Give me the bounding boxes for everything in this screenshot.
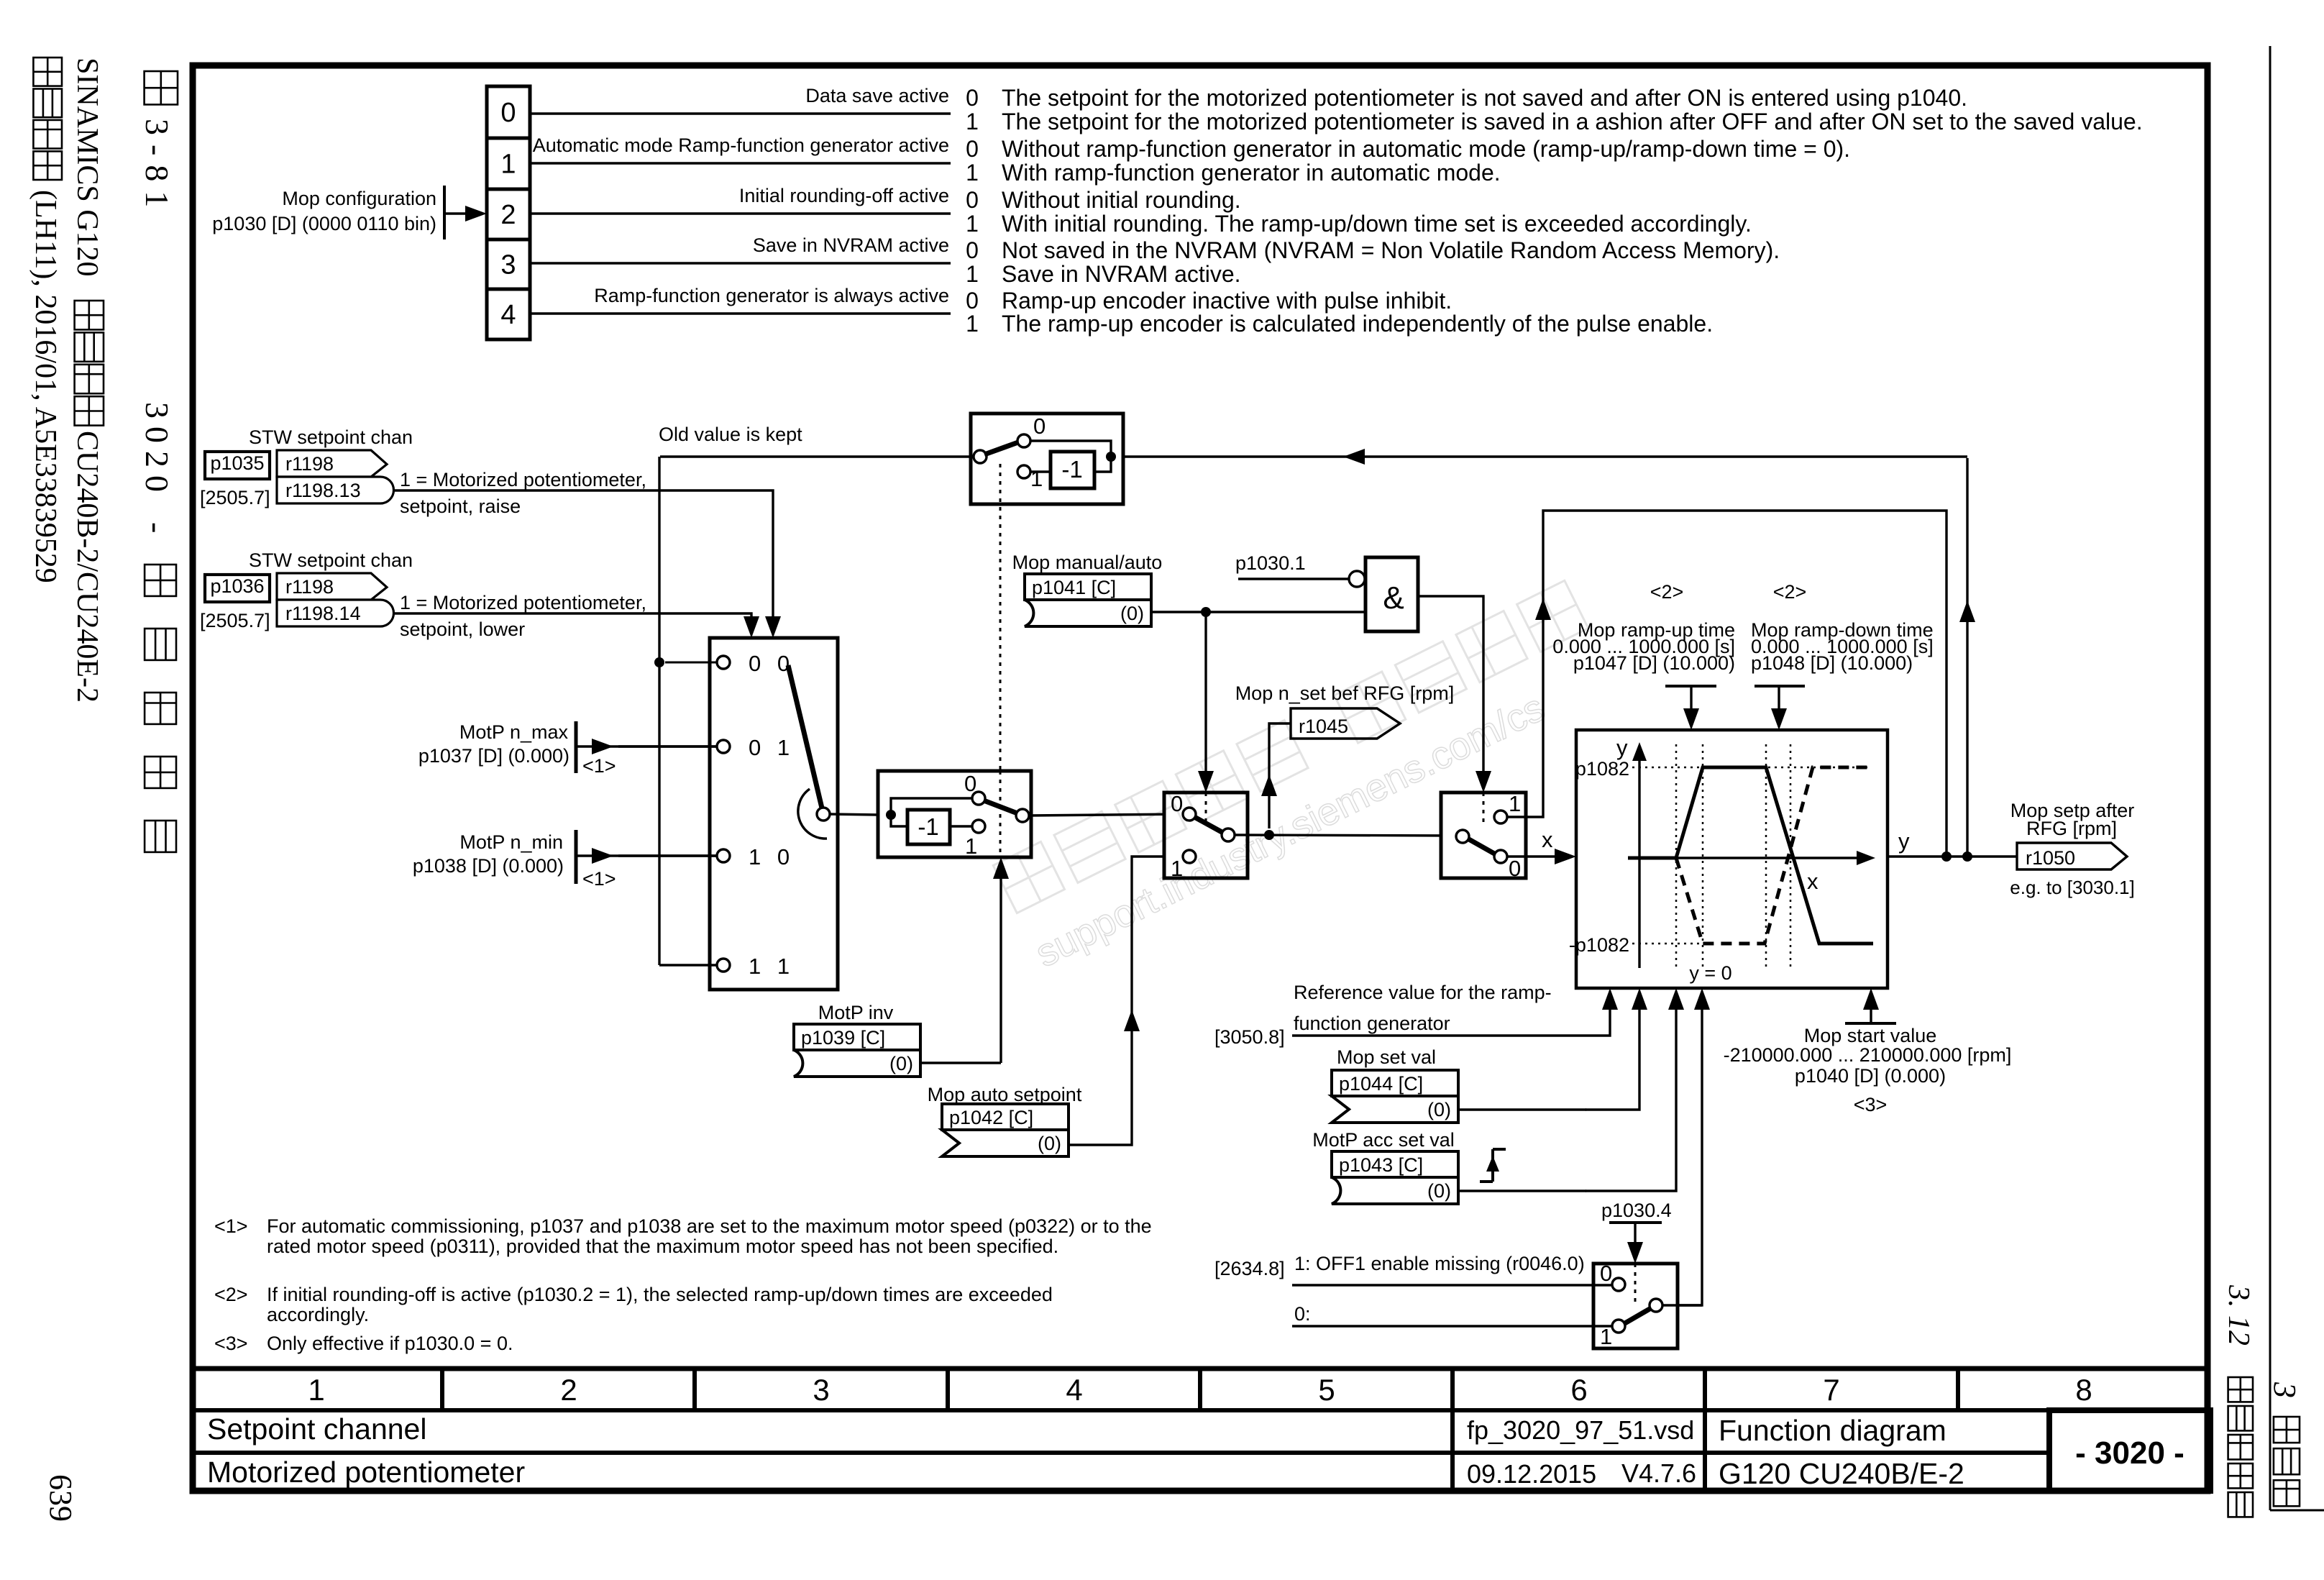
svg-text:r1198.13: r1198.13: [285, 480, 361, 501]
S1 wire -1 out: [1094, 458, 1111, 472]
svg-text:<2>: <2>: [214, 1284, 248, 1305]
wire lower r1198.14 to switch: [394, 613, 751, 618]
switch S2 box (raise/lower select): [710, 638, 838, 990]
svg-text:1: 1: [966, 311, 979, 337]
svg-text:p1041 [C]: p1041 [C]: [1032, 577, 1116, 598]
wire p1047 into RFG: [1690, 686, 1692, 713]
svg-text:3. 12: 3. 12: [2222, 1284, 2255, 1346]
gate AND box U1: [1365, 557, 1418, 631]
svg-text:<1>: <1>: [582, 755, 616, 777]
svg-text:Without initial rounding.: Without initial rounding.: [1002, 187, 1241, 213]
svg-text:p1036: p1036: [210, 575, 264, 597]
svg-text:Mop manual/auto: Mop manual/auto: [1012, 552, 1163, 573]
S5 contact 0: [1494, 850, 1507, 863]
svg-text:0: 0: [1600, 1261, 1612, 1286]
svg-text:<2>: <2>: [1650, 581, 1684, 603]
svg-text:Automatic mode Ramp-function g: Automatic mode Ramp-function generator a…: [533, 134, 949, 156]
svg-text:(0): (0): [1038, 1133, 1061, 1154]
svg-text:MotP inv: MotP inv: [818, 1002, 894, 1023]
svg-text:1 0: 1 0: [749, 844, 795, 869]
svg-text:(LH11), 2016/01, A5E33839529: (LH11), 2016/01, A5E33839529: [29, 190, 62, 583]
S1 junction: [1106, 452, 1116, 462]
p1048 bar: [1755, 685, 1805, 688]
S5 control dashed: [1483, 793, 1485, 827]
svg-text:With initial rounding. The ram: With initial rounding. The ramp-up/down …: [1002, 211, 1752, 237]
table line under numbers: [190, 1408, 2210, 1412]
wire raise r1198.13 to switch: [394, 490, 773, 618]
S2 contact 11: [717, 959, 730, 972]
table column divider 3: [946, 1369, 950, 1410]
svg-text:<1>: <1>: [214, 1215, 248, 1237]
svg-text:0: 0: [966, 288, 979, 314]
RFG p1082 dotted: [1632, 767, 1871, 769]
frame main diagram border: [193, 65, 2208, 1491]
S1 inverter -1 box: [1051, 452, 1094, 488]
svg-text:09.12.2015: 09.12.2015: [1467, 1459, 1596, 1489]
svg-text:0: 0: [966, 85, 979, 111]
S5 lever: [1468, 839, 1496, 854]
RFG x axis: [1628, 857, 1859, 859]
svg-text:3020: 3020: [139, 402, 175, 500]
svg-text:1: 1: [1030, 466, 1043, 491]
wire p1043 into RFG: [1586, 1005, 1676, 1191]
svg-text:setpoint, lower: setpoint, lower: [400, 618, 525, 640]
svg-text:[2505.7]: [2505.7]: [200, 487, 270, 508]
svg-text:<2>: <2>: [1773, 581, 1807, 603]
right margin rule: [2269, 46, 2272, 1510]
S2 contact 10: [717, 849, 730, 862]
S4 contact 0: [1183, 808, 1196, 821]
svg-text:V4.7.6: V4.7.6: [1621, 1458, 1696, 1488]
RFG -p1082 dotted: [1632, 943, 1703, 945]
svg-text:4: 4: [500, 300, 516, 330]
margin text manual LH11 2016: [29, 58, 62, 583]
switch S4 box (manual/auto): [1164, 793, 1248, 878]
svg-text:STW setpoint chan: STW setpoint chan: [249, 426, 413, 448]
svg-text:The setpoint for the motorized: The setpoint for the motorized potentiom…: [1002, 85, 1967, 111]
svg-text:<1>: <1>: [582, 868, 616, 890]
svg-text:x: x: [1542, 827, 1553, 852]
svg-text:The ramp-up encoder is calcula: The ramp-up encoder is calculated indepe…: [1002, 311, 1713, 337]
svg-text:r1198: r1198: [285, 453, 334, 475]
table divider col7 rows: [1703, 1410, 1707, 1491]
svg-text:Not saved in the NVRAM (NVRAM: Not saved in the NVRAM (NVRAM = Non Vola…: [1002, 237, 1780, 263]
S4 control arrow: [1204, 612, 1207, 775]
switch S6 box (OFF1): [1593, 1264, 1678, 1348]
svg-text:accordingly.: accordingly.: [267, 1304, 369, 1325]
svg-text:3-81: 3-81: [139, 119, 175, 216]
p1041 junction: [1201, 607, 1211, 617]
svg-text:7: 7: [1823, 1373, 1839, 1407]
wire r1045: [1269, 723, 1291, 828]
S1 wire 1 to -1: [1030, 470, 1051, 472]
svg-text:1: 1: [966, 160, 979, 186]
S3 control dashed: [999, 771, 1002, 856]
svg-text:1 1: 1 1: [749, 954, 795, 979]
svg-text:rated motor speed (p0311), pro: rated motor speed (p0311), provided that…: [267, 1236, 1058, 1257]
svg-text:&: &: [1383, 580, 1404, 616]
S6 output wire: [1662, 1304, 1702, 1306]
S4 output wire: [1234, 835, 1456, 836]
table box -3020- border: [2049, 1410, 2210, 1491]
margin page number 639: [43, 1474, 78, 1522]
connector p1041: [1025, 574, 1151, 600]
switch S3 box (MotP inv): [878, 771, 1031, 857]
svg-text:0: 0: [1509, 856, 1521, 881]
svg-text:1: 1: [308, 1373, 324, 1407]
wire OFF1 line: [1292, 1284, 1612, 1286]
S4 lever: [1194, 817, 1223, 833]
watermark siemens forum: [993, 580, 1619, 975]
svg-text:-210000.000 ... 210000.000 [r: -210000.000 ... 210000.000 [rpm]: [1724, 1044, 2012, 1066]
svg-text:0: 0: [966, 187, 979, 213]
svg-text:Motorized potentiometer: Motorized potentiometer: [207, 1456, 525, 1489]
S4 contact 1: [1183, 850, 1196, 863]
wire p1030.4 control: [1634, 1223, 1636, 1247]
S5 wire 1 feedback: [1507, 511, 1946, 857]
S2 contact 00: [717, 656, 730, 669]
wire p1040 into RFG: [1870, 1005, 1872, 1023]
svg-text:1: 1: [966, 261, 979, 287]
table column divider 4: [1198, 1369, 1202, 1410]
svg-text:r1045: r1045: [1299, 716, 1348, 737]
wire bit0: [530, 112, 951, 114]
gate output wire: [1418, 596, 1483, 775]
svg-text:fp_3020_97_51.vsd: fp_3020_97_51.vsd: [1467, 1415, 1694, 1445]
svg-text:SINAMICS G120: SINAMICS G120: [70, 58, 104, 277]
p1038 input bar: [575, 830, 578, 884]
junction r1050 b: [1962, 851, 1972, 862]
gate NOT circle: [1349, 571, 1365, 587]
svg-text:p1030 [D] (0000 0110 bin): p1030 [D] (0000 0110 bin): [212, 213, 436, 234]
S1 control dashed: [999, 464, 1002, 771]
S3 junction: [886, 810, 896, 820]
svg-text:Old value is kept: Old value is kept: [659, 424, 802, 445]
svg-text:0: 0: [966, 237, 979, 263]
svg-text:Mop start value: Mop start value: [1804, 1025, 1937, 1046]
svg-text:0: 0: [966, 136, 979, 162]
S2 contact 01: [717, 740, 730, 753]
table column divider 6: [1703, 1369, 1707, 1410]
wire feedback r1050 to old-value: [1966, 458, 1968, 857]
p1037 input bar: [575, 721, 578, 773]
svg-text:1: 1: [1509, 791, 1521, 816]
wire p1043 out: [1458, 1189, 1586, 1192]
svg-text:1: 1: [965, 834, 977, 859]
svg-text:r1198.14: r1198.14: [285, 603, 361, 624]
svg-text:5: 5: [1318, 1373, 1335, 1407]
svg-text:p1047 [D] (10.000): p1047 [D] (10.000): [1573, 652, 1735, 674]
table line under row2: [190, 1451, 2049, 1455]
wire bit3: [530, 262, 951, 264]
svg-text:G120 CU240B/E-2: G120 CU240B/E-2: [1719, 1457, 1964, 1490]
S6 control dashed: [1634, 1264, 1637, 1303]
svg-text:1: 1: [966, 211, 979, 237]
svg-text:8: 8: [2075, 1373, 2092, 1407]
wire p1048 into RFG: [1778, 686, 1780, 713]
p1040 bar: [1845, 1022, 1896, 1025]
connector p1039: [794, 1024, 920, 1050]
S3 lever: [984, 800, 1017, 813]
S2 pivot: [817, 808, 830, 821]
svg-text:-p1082: -p1082: [1569, 934, 1629, 956]
svg-text:MotP n_min: MotP n_min: [459, 831, 563, 853]
svg-text:Only effective if p1030.0 = 0.: Only effective if p1030.0 = 0.: [267, 1333, 513, 1354]
wire p1030.1: [1238, 577, 1349, 580]
svg-text:CU240B-2/CU240E-2: CU240B-2/CU240E-2: [70, 431, 104, 703]
svg-text:p1048 [D] (10.000): p1048 [D] (10.000): [1751, 652, 1913, 674]
wire p1038: [576, 854, 717, 857]
svg-text:p1082: p1082: [1575, 758, 1629, 780]
svg-text:RFG [rpm]: RFG [rpm]: [2026, 818, 2117, 839]
S2 arc: [798, 789, 827, 839]
bit selector divider 3: [487, 238, 530, 242]
svg-text:Mop auto setpoint: Mop auto setpoint: [928, 1084, 1082, 1105]
connector p1043: [1332, 1151, 1458, 1177]
svg-text:[2505.7]: [2505.7]: [200, 610, 270, 631]
S2 stub 11: [659, 964, 717, 966]
svg-text:0: 0: [964, 771, 976, 796]
margin text SINAMICS G120 CU240B-2/CU240E-2: [70, 58, 104, 703]
svg-text:p1042 [C]: p1042 [C]: [949, 1107, 1033, 1128]
connector p1044: [1332, 1070, 1458, 1096]
connector out r1050: [2017, 843, 2127, 869]
junction x918 y921: [654, 657, 664, 667]
S2 stub 01: [618, 745, 717, 747]
S3 control arrow from p1039: [999, 875, 1002, 1063]
svg-text:Ramp-function generator is alw: Ramp-function generator is always active: [594, 285, 949, 306]
wire p1042 out: [1069, 857, 1183, 1145]
right margin underline: [2270, 1510, 2324, 1512]
svg-text:1: OFF1 enable missing (r0046.: 1: OFF1 enable missing (r0046.0): [1294, 1253, 1585, 1274]
wire p1041 out: [1151, 611, 1365, 613]
svg-text:y: y: [1898, 828, 1910, 854]
S4 pivot: [1222, 828, 1235, 841]
svg-text:MotP acc set val: MotP acc set val: [1312, 1129, 1455, 1151]
svg-text:0 1: 0 1: [749, 735, 795, 760]
S6 lever: [1624, 1308, 1651, 1324]
wire p1039 out: [920, 1061, 1001, 1064]
RFG dotted vertical 2: [1702, 744, 1704, 968]
parameter box p1035: [205, 452, 270, 479]
svg-text:Ramp-up encoder inactive with: Ramp-up encoder inactive with pulse inhi…: [1002, 288, 1452, 314]
svg-text:[3050.8]: [3050.8]: [1214, 1026, 1285, 1048]
S2 stub 10: [618, 854, 717, 857]
table column divider 5: [1450, 1369, 1455, 1410]
RFG dotted vertical 1: [1675, 744, 1678, 968]
svg-text:p1030.4: p1030.4: [1601, 1200, 1672, 1221]
svg-text:p1039 [C]: p1039 [C]: [801, 1027, 885, 1049]
wire feedback left segment: [660, 455, 971, 457]
p1047 bar: [1665, 685, 1716, 688]
table top line: [190, 1366, 2210, 1371]
S3 wire -1 out: [950, 825, 972, 827]
svg-text:function generator: function generator: [1294, 1013, 1450, 1034]
wire p1044 into RFG: [1586, 1005, 1639, 1110]
svg-text:The setpoint for the motorized: The setpoint for the motorized potentiom…: [1002, 109, 2143, 134]
svg-text:6: 6: [1570, 1373, 1587, 1407]
svg-text:r1198: r1198: [285, 576, 334, 598]
right margin chapter 3 (vertical): [2267, 1382, 2302, 1506]
svg-text:3: 3: [813, 1373, 829, 1407]
svg-text:0: 0: [1171, 791, 1183, 816]
RFG dotted vertical 3: [1765, 744, 1767, 968]
svg-text:STW setpoint chan: STW setpoint chan: [249, 549, 413, 571]
connector out r1045: [1291, 708, 1400, 739]
svg-text:p1030.1: p1030.1: [1235, 552, 1306, 574]
wire bit2: [530, 212, 951, 214]
svg-text:2: 2: [560, 1373, 577, 1407]
svg-text:Save in NVRAM active: Save in NVRAM active: [753, 234, 949, 256]
svg-text:-1: -1: [1061, 456, 1082, 483]
table divider col6 rows: [1450, 1410, 1455, 1491]
svg-text:1 = Motorized potentiometer,: 1 = Motorized potentiometer,: [400, 469, 646, 490]
svg-text:2: 2: [500, 200, 516, 230]
S5 input contact: [1456, 830, 1469, 843]
edge symbol (p1043): [1480, 1180, 1493, 1183]
svg-text:<3>: <3>: [214, 1333, 248, 1354]
svg-text:-: -: [139, 522, 175, 533]
svg-text:e.g. to [3030.1]: e.g. to [3030.1]: [2010, 877, 2134, 898]
connector p1042: [942, 1104, 1069, 1130]
svg-text:With ramp-function generator i: With ramp-function generator in automati…: [1002, 160, 1501, 186]
wire p1030.4 into RFG: [1661, 1005, 1702, 1305]
wire feedback right segment: [1123, 455, 1967, 457]
svg-text:639: 639: [43, 1474, 78, 1522]
svg-text:p1043 [C]: p1043 [C]: [1339, 1154, 1423, 1176]
switch S5 box (setpoint hold): [1441, 793, 1526, 878]
S2 stub 00: [665, 662, 717, 664]
S5 contact 1: [1494, 810, 1507, 823]
svg-text:p1037 [D] (0.000): p1037 [D] (0.000): [418, 745, 569, 767]
svg-text:(0): (0): [1427, 1180, 1451, 1202]
S4 out junction: [1264, 830, 1274, 840]
S3 output wire: [1028, 814, 1183, 816]
svg-text:For automatic commissioning, p: For automatic commissioning, p1037 and p…: [267, 1215, 1152, 1237]
bit selector box p1030: [487, 86, 530, 339]
svg-text:Setpoint channel: Setpoint channel: [207, 1412, 426, 1446]
svg-text:r1050: r1050: [2026, 847, 2075, 869]
wire p1044 out: [1458, 1108, 1586, 1110]
S2 lever: [788, 665, 823, 814]
svg-text:(0): (0): [1120, 603, 1144, 624]
S4 control dashed: [1205, 793, 1207, 827]
wire 0: line: [1292, 1325, 1612, 1327]
svg-text:y = 0: y = 0: [1689, 962, 1731, 984]
svg-text:Mop configuration: Mop configuration: [282, 188, 436, 209]
S6 contact 1: [1612, 1320, 1625, 1333]
binector flags r1198 / r1198.14: [277, 573, 387, 600]
wire p1030 to selector: [444, 212, 467, 214]
svg-text:p1044 [C]: p1044 [C]: [1339, 1073, 1423, 1095]
svg-text:Data save active: Data save active: [805, 85, 949, 106]
svg-text:p1038 [D] (0.000): p1038 [D] (0.000): [413, 855, 564, 877]
svg-text:Without ramp-function generato: Without ramp-function generator in autom…: [1002, 136, 1850, 162]
binector flags r1198 / r1198.13: [277, 450, 387, 477]
svg-text:MotP n_max: MotP n_max: [459, 721, 569, 743]
S3 wire lower branch: [891, 815, 907, 826]
svg-text:Save in NVRAM active.: Save in NVRAM active.: [1002, 261, 1241, 287]
svg-text:0: 0: [1033, 414, 1046, 439]
svg-text:p1040 [D] (0.000): p1040 [D] (0.000): [1795, 1065, 1946, 1087]
svg-text:Function diagram: Function diagram: [1719, 1414, 1946, 1447]
S6 contact 0: [1612, 1278, 1625, 1291]
S1 lever: [984, 442, 1018, 455]
svg-text:y: y: [1616, 735, 1628, 760]
switch S1 box (old value kept): [971, 414, 1123, 504]
S1 contact 0: [1017, 434, 1030, 447]
RFG dotted vertical 4: [1790, 744, 1792, 968]
svg-text:Mop n_set bef RFG [rpm]: Mop n_set bef RFG [rpm]: [1235, 682, 1455, 704]
bit selector divider 1: [487, 137, 530, 140]
S5 output wire x: [1507, 855, 1557, 857]
svg-text:1: 1: [500, 150, 516, 180]
svg-text:(0): (0): [1427, 1099, 1451, 1120]
wire feedback vertical x918: [658, 457, 660, 965]
margin figure caption 3-81 3020: [139, 71, 178, 852]
table column divider 7: [1956, 1369, 1960, 1410]
svg-text:(0): (0): [889, 1053, 913, 1074]
S3 contact 0: [972, 792, 985, 805]
wire bit4: [530, 312, 951, 314]
svg-text:1: 1: [966, 109, 979, 134]
svg-text:Reference value for the ramp-: Reference value for the ramp-: [1294, 982, 1552, 1003]
svg-text:4: 4: [1066, 1373, 1082, 1407]
wire p1037: [576, 745, 717, 747]
S1 wire 0 to junction: [1030, 441, 1111, 457]
svg-text:p1035: p1035: [210, 452, 264, 474]
svg-text:3: 3: [2267, 1382, 2302, 1398]
svg-text:setpoint, raise: setpoint, raise: [400, 496, 521, 517]
svg-text:x: x: [1807, 869, 1819, 894]
RFG ramp function generator box: [1576, 730, 1888, 988]
svg-text:If initial rounding-off is act: If initial rounding-off is active (p1030…: [267, 1284, 1053, 1305]
RFG ramp dashed curve: [1676, 767, 1871, 944]
wire ref value into RFG: [1292, 1005, 1610, 1036]
wire RFG to r1050: [1888, 855, 2017, 857]
S3 contact 1: [972, 820, 985, 833]
bit selector divider 2: [487, 188, 530, 191]
p1030.4 bar: [1609, 1221, 1662, 1224]
svg-text:-1: -1: [918, 813, 938, 840]
right margin section 3.12 (vertical): [2222, 1284, 2255, 1517]
junction r1050 a: [1941, 851, 1952, 862]
svg-text:[2634.8]: [2634.8]: [1214, 1258, 1285, 1279]
svg-text:0: 0: [500, 98, 516, 128]
S3 wire upper branch: [891, 798, 972, 815]
svg-text:<3>: <3>: [1854, 1094, 1888, 1115]
svg-text:1: 1: [1600, 1324, 1612, 1349]
svg-text:0:: 0:: [1294, 1303, 1311, 1325]
p1030 input bar: [443, 186, 446, 239]
S1 input contact: [974, 450, 987, 463]
bit selector divider 4: [487, 288, 530, 291]
svg-text:1 = Motorized potentiometer,: 1 = Motorized potentiometer,: [400, 592, 646, 613]
table column divider 2: [692, 1369, 697, 1410]
svg-text:Mop set val: Mop set val: [1337, 1046, 1436, 1068]
S2 output wire: [829, 814, 878, 815]
S6 pivot: [1650, 1299, 1662, 1312]
table column divider 1: [440, 1369, 444, 1410]
feedback arrow left: [1343, 449, 1365, 465]
parameter box p1036: [205, 575, 270, 602]
S3 pivot: [1016, 809, 1029, 822]
svg-text:3: 3: [500, 250, 516, 280]
S1 contact 1: [1017, 465, 1030, 478]
wire bit1: [530, 162, 951, 164]
RFG y axis: [1638, 761, 1640, 968]
RFG ramp solid curve: [1628, 767, 1873, 944]
